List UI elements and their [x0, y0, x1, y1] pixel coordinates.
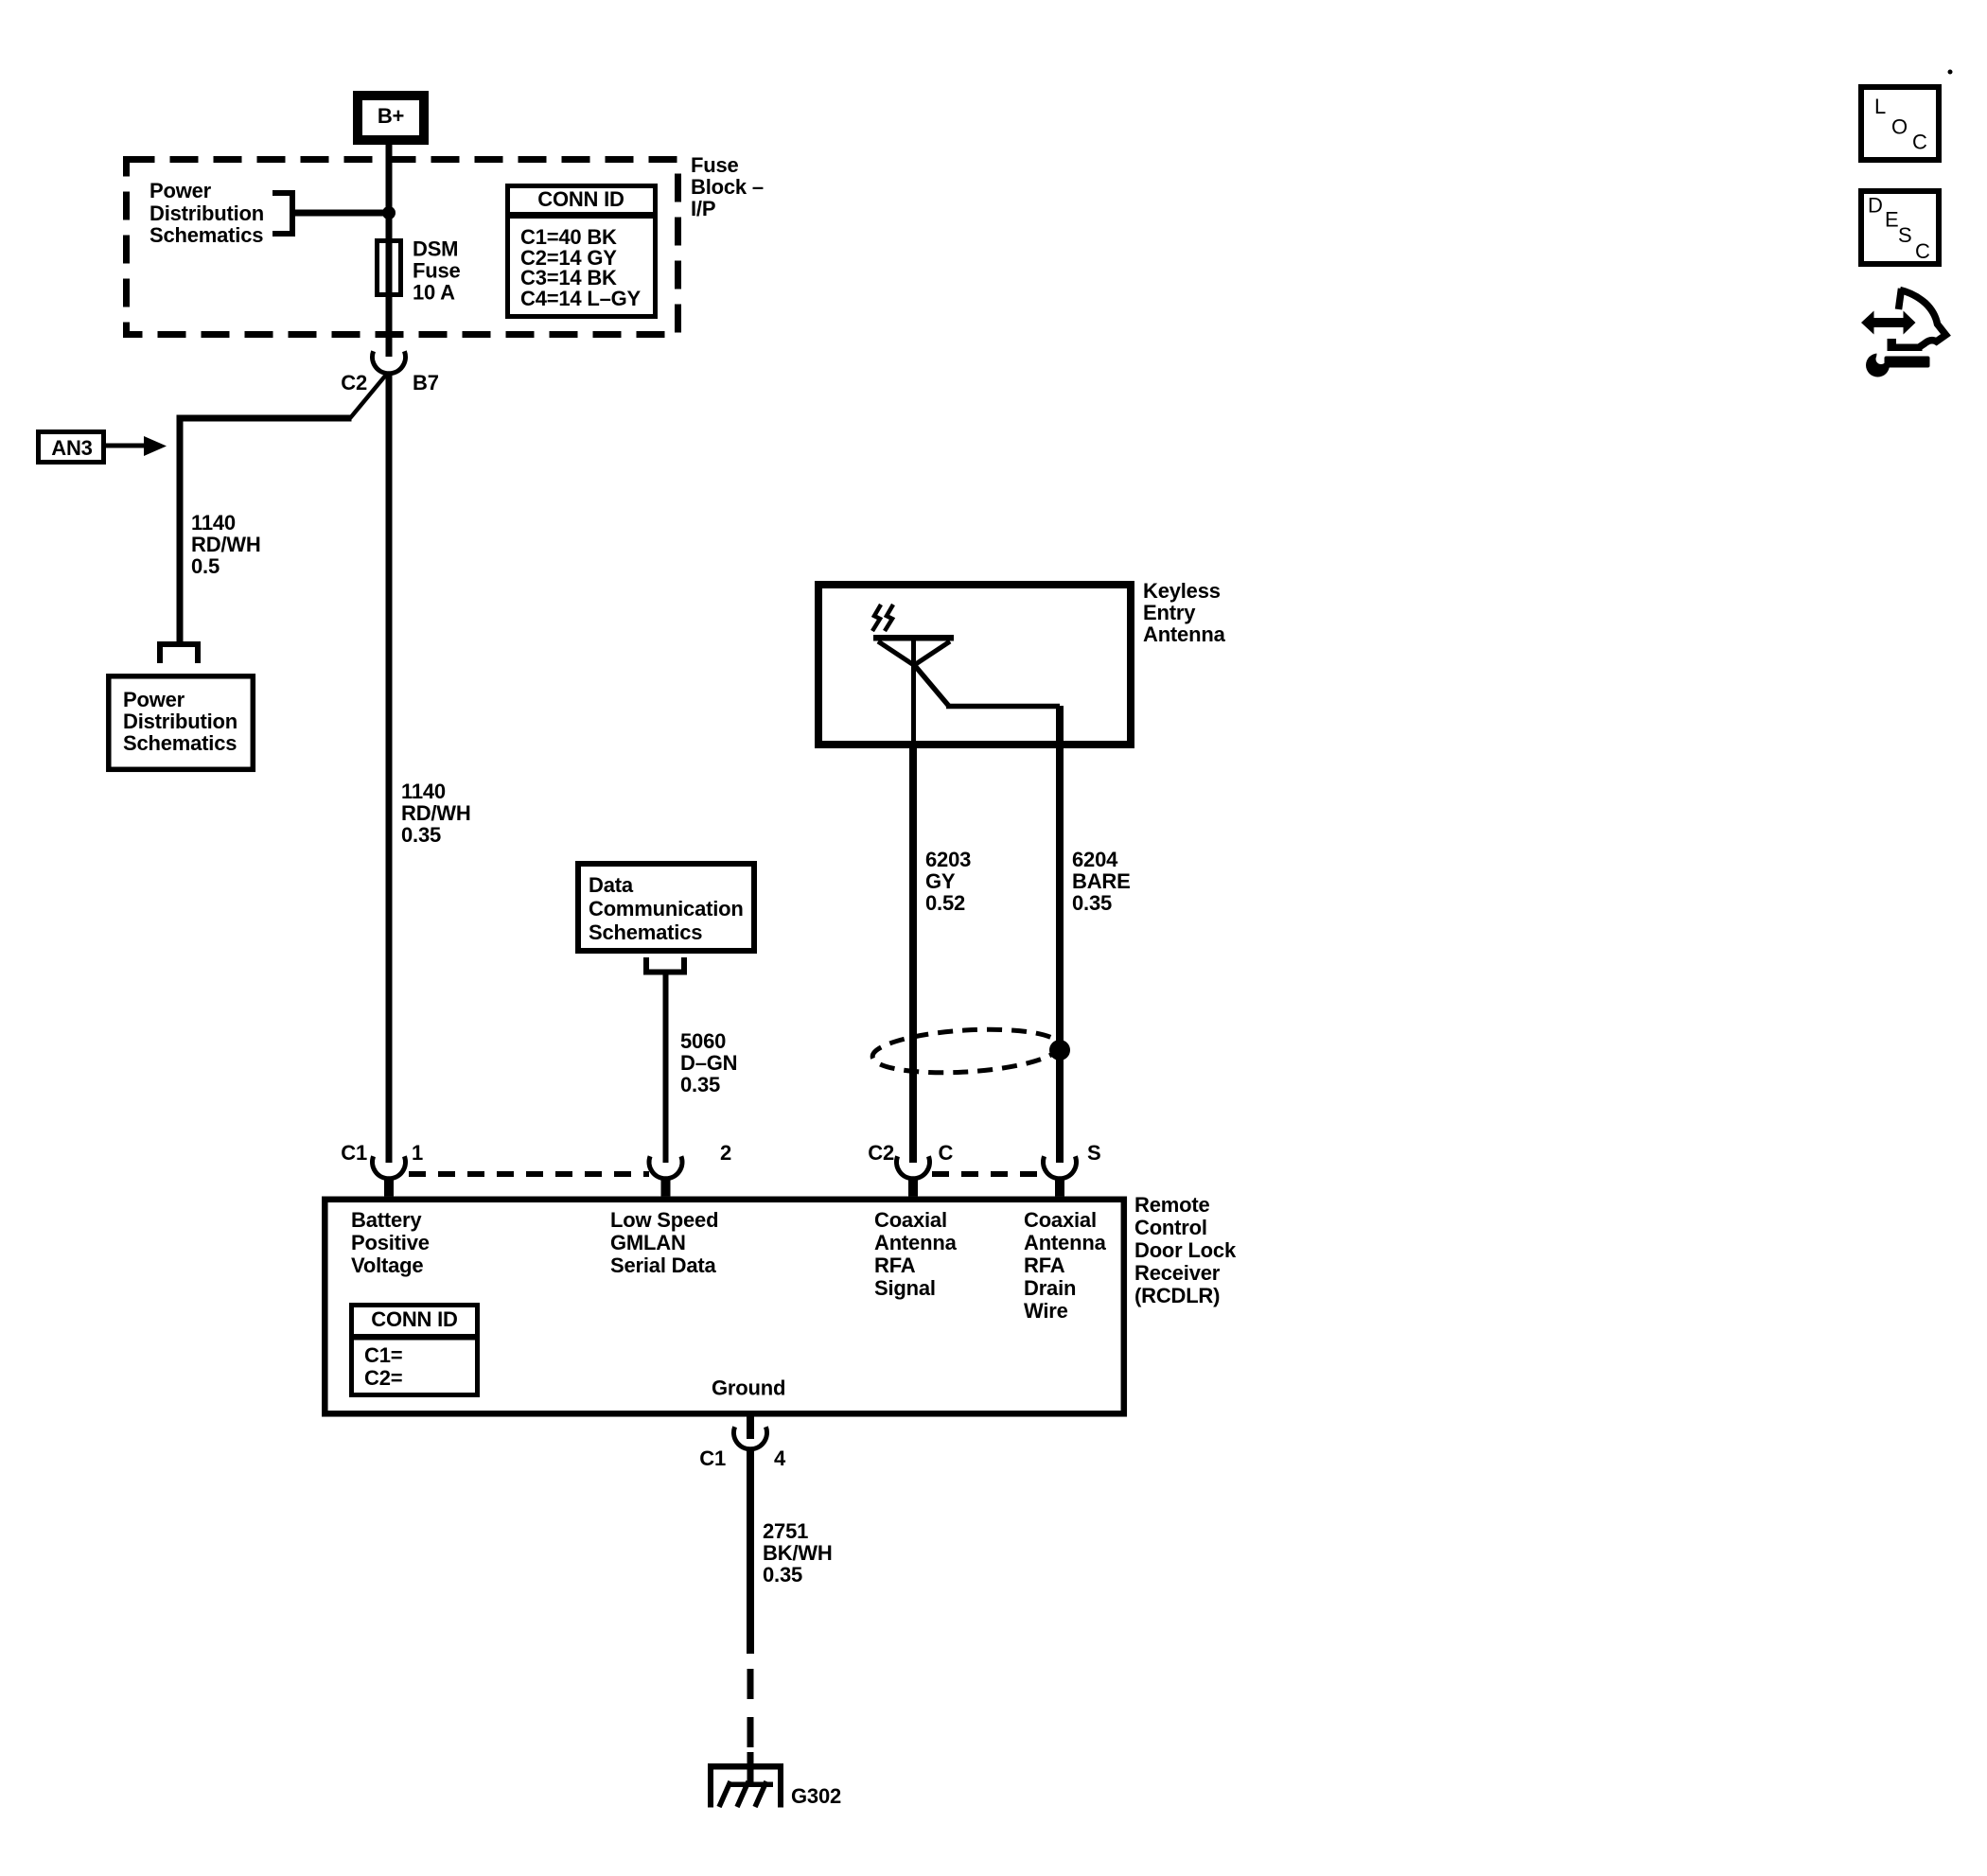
svg-text:RFA: RFA — [1024, 1254, 1065, 1277]
label Low Speed GMLAN Serial Data — [610, 1208, 718, 1277]
wire 2751 BK/WH solid — [747, 1448, 754, 1655]
svg-text:1140: 1140 — [191, 511, 236, 535]
svg-text:CONN ID: CONN ID — [371, 1307, 458, 1331]
svg-text:O: O — [1891, 115, 1908, 139]
wire coaxial signal (6203 GY) — [909, 741, 917, 1163]
label Power Distribution Schematics (fuse block) — [149, 179, 264, 247]
wire data comm to pin 2 (5060 D-GN) — [663, 975, 669, 1164]
speck — [1948, 70, 1953, 75]
pin 1 connector — [341, 1141, 423, 1197]
svg-text:2751: 2751 — [763, 1519, 808, 1543]
junction node — [382, 206, 396, 219]
icon DESC — [1861, 191, 1939, 264]
svg-text:5060: 5060 — [680, 1029, 726, 1053]
svg-text:Power: Power — [123, 688, 185, 711]
svg-text:S: S — [1087, 1141, 1100, 1165]
label Battery Positive Voltage — [351, 1208, 430, 1277]
svg-text:Ground: Ground — [712, 1376, 785, 1400]
bracket to power distribution — [273, 190, 295, 237]
svg-text:Door Lock: Door Lock — [1134, 1238, 1237, 1262]
wire B+ to connector C2 B7 — [386, 145, 393, 357]
svg-text:Positive: Positive — [351, 1231, 430, 1254]
label 5060 D-GN 0.35 — [680, 1029, 737, 1096]
svg-text:Antenna: Antenna — [874, 1231, 958, 1254]
svg-text:Block –: Block – — [691, 175, 764, 199]
svg-text:6203: 6203 — [925, 848, 971, 871]
svg-text:B7: B7 — [413, 371, 439, 394]
svg-text:4: 4 — [774, 1446, 786, 1470]
label Keyless Entry Antenna — [1143, 579, 1226, 646]
svg-text:C: C — [939, 1141, 954, 1165]
svg-text:Distribution: Distribution — [149, 202, 264, 225]
svg-text:2: 2 — [720, 1141, 731, 1165]
svg-text:RD/WH: RD/WH — [191, 533, 261, 556]
icon LOC — [1861, 87, 1939, 160]
svg-text:Schematics: Schematics — [123, 731, 237, 755]
svg-text:Data: Data — [589, 873, 634, 897]
svg-text:AN3: AN3 — [51, 436, 92, 460]
svg-text:Antenna: Antenna — [1143, 622, 1226, 646]
svg-text:L: L — [1874, 95, 1886, 118]
pin C connector — [868, 1141, 953, 1197]
label Fuse Block I/P — [691, 153, 764, 220]
svg-text:RD/WH: RD/WH — [401, 801, 471, 825]
svg-text:Antenna: Antenna — [1024, 1231, 1107, 1254]
wire 2751 dashed segments — [747, 1669, 754, 1786]
svg-text:Control: Control — [1134, 1216, 1207, 1239]
label Coaxial Antenna RFA Signal — [874, 1208, 958, 1300]
svg-text:Fuse: Fuse — [413, 259, 461, 283]
coax shield ellipse — [871, 1025, 1061, 1078]
wire branch diagonal — [350, 374, 387, 418]
svg-text:Fuse: Fuse — [691, 153, 739, 177]
svg-text:C: C — [1912, 131, 1927, 154]
svg-text:Serial Data: Serial Data — [610, 1254, 716, 1277]
svg-text:DSM: DSM — [413, 237, 458, 261]
svg-text:B+: B+ — [378, 104, 404, 128]
connector dashed line pins 1-2 — [409, 1171, 649, 1177]
off-page bracket (power distribution) — [157, 641, 201, 663]
svg-text:BK/WH: BK/WH — [763, 1541, 833, 1565]
label DSM Fuse 10 A — [413, 237, 461, 305]
svg-text:CONN ID: CONN ID — [537, 187, 624, 211]
svg-text:Entry: Entry — [1143, 601, 1196, 624]
ground symbol G302 — [708, 1763, 841, 1808]
CONN ID table (RCDLR) — [349, 1306, 480, 1395]
svg-text:Schematics: Schematics — [589, 920, 702, 944]
arrow AN3 — [106, 436, 167, 456]
svg-text:I/P: I/P — [691, 197, 715, 220]
label 1140 RD/WH 0.35 — [401, 780, 471, 847]
icon wrench — [1866, 349, 1930, 377]
pin 2 connector — [649, 1141, 731, 1197]
shield junction dot — [1049, 1040, 1070, 1061]
svg-text:S: S — [1898, 223, 1912, 247]
svg-text:0.35: 0.35 — [401, 823, 441, 847]
svg-text:0.5: 0.5 — [191, 554, 220, 578]
svg-text:10 A: 10 A — [413, 281, 455, 305]
svg-text:Schematics: Schematics — [149, 223, 263, 247]
svg-text:C2=: C2= — [364, 1366, 402, 1390]
svg-text:Keyless: Keyless — [1143, 579, 1221, 603]
svg-text:GMLAN: GMLAN — [610, 1231, 686, 1254]
wire bracket to junction — [295, 210, 389, 217]
label 6204 BARE 0.35 — [1072, 848, 1131, 915]
antenna radiation marks — [872, 605, 893, 631]
svg-text:1140: 1140 — [401, 780, 446, 803]
svg-text:Battery: Battery — [351, 1208, 422, 1232]
svg-text:Wire: Wire — [1024, 1299, 1068, 1323]
ground pin wire stub — [747, 1413, 754, 1439]
box Power Distribution Schematics — [109, 676, 253, 770]
label Coaxial Antenna RFA Drain Wire — [1024, 1208, 1107, 1323]
wire branch vertical (1140 RD/WH 0.5) — [177, 415, 184, 642]
svg-text:Remote: Remote — [1134, 1193, 1210, 1217]
antenna symbol — [873, 635, 1060, 748]
svg-text:C1=: C1= — [364, 1343, 402, 1367]
fuse DSM 10A — [378, 241, 401, 295]
box Data Communication Schematics — [578, 864, 754, 951]
svg-text:E: E — [1885, 208, 1899, 232]
svg-text:0.35: 0.35 — [763, 1563, 802, 1587]
svg-text:C2: C2 — [868, 1141, 894, 1165]
svg-text:C1: C1 — [341, 1141, 367, 1165]
svg-text:0.52: 0.52 — [925, 891, 965, 915]
svg-text:Communication: Communication — [589, 897, 744, 920]
power symbol B+ — [358, 96, 424, 140]
label Remote Control Door Lock Receiver (RCDLR) — [1134, 1193, 1237, 1307]
label 1140 RD/WH 0.5 — [191, 511, 261, 578]
svg-text:(RCDLR): (RCDLR) — [1134, 1284, 1220, 1307]
svg-text:RFA: RFA — [874, 1254, 916, 1277]
svg-text:0.35: 0.35 — [1072, 891, 1112, 915]
svg-text:Coaxial: Coaxial — [874, 1208, 947, 1232]
svg-text:Signal: Signal — [874, 1276, 936, 1300]
svg-text:Voltage: Voltage — [351, 1254, 423, 1277]
svg-text:Distribution: Distribution — [123, 710, 237, 733]
svg-text:C1: C1 — [699, 1446, 726, 1470]
RCDLR box — [325, 1200, 1124, 1414]
wire branch horizontal — [177, 415, 352, 422]
wire coaxial drain (6204 BARE) — [1056, 706, 1064, 1163]
keyless entry antenna box — [818, 585, 1131, 745]
svg-text:1: 1 — [412, 1141, 423, 1165]
svg-text:Low Speed: Low Speed — [610, 1208, 718, 1232]
svg-text:C2: C2 — [341, 371, 367, 394]
svg-text:D: D — [1868, 194, 1883, 218]
off-page bracket (data comm) — [643, 957, 687, 975]
svg-text:C4=14 L–GY: C4=14 L–GY — [520, 287, 642, 310]
svg-text:Receiver: Receiver — [1134, 1261, 1221, 1285]
pin S connector — [1043, 1141, 1100, 1197]
label 6203 GY 0.52 — [925, 848, 971, 915]
svg-text:0.35: 0.35 — [680, 1073, 720, 1096]
ground pin connector C1 4 — [699, 1427, 786, 1470]
icon curved arrow outline — [1888, 289, 1946, 351]
svg-text:Drain: Drain — [1024, 1276, 1076, 1300]
connector dashed line pins C-S — [932, 1171, 1043, 1177]
svg-text:BARE: BARE — [1072, 869, 1131, 893]
connector AN3 — [39, 432, 104, 463]
fuse block dashed box — [127, 160, 678, 335]
svg-text:G302: G302 — [791, 1784, 841, 1808]
svg-text:6204: 6204 — [1072, 848, 1118, 871]
CONN ID table (fuse block) — [505, 186, 658, 317]
svg-text:C: C — [1915, 239, 1930, 263]
icon double arrow — [1861, 311, 1916, 335]
svg-text:GY: GY — [925, 869, 956, 893]
svg-text:Coaxial: Coaxial — [1024, 1208, 1097, 1232]
label 2751 BK/WH 0.35 — [763, 1519, 833, 1587]
wire connector to pin 1 (1140 RD/WH 0.35) — [386, 372, 393, 1163]
svg-text:Power: Power — [149, 179, 212, 202]
connector C2 B7 — [341, 351, 438, 394]
svg-text:D–GN: D–GN — [680, 1051, 737, 1075]
